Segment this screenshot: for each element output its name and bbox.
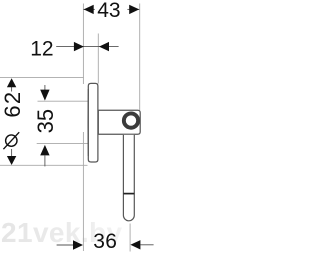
holder arm xyxy=(98,110,140,134)
dimension tail 35 bottom xyxy=(44,155,46,167)
roll pin end cap (donut) xyxy=(124,113,138,127)
svg-text:35: 35 xyxy=(33,109,58,133)
rod joint tick xyxy=(123,193,134,195)
svg-text:12: 12 xyxy=(30,38,53,61)
wall plate (side view) xyxy=(88,83,98,162)
svg-text:43: 43 xyxy=(97,0,120,22)
dimension stub 62 bottom xyxy=(11,149,13,156)
arrow 36 right (points left) xyxy=(130,240,140,249)
hanging rod xyxy=(123,135,134,221)
arrow 62 bottom (points down) xyxy=(7,156,16,165)
dimension stub 62 top xyxy=(11,87,13,92)
dimension line 36 left tail xyxy=(57,244,74,246)
extension line C (right of 43) xyxy=(139,4,141,111)
dimension stub 35 top xyxy=(44,85,46,90)
extension line A (left of 43/12) xyxy=(82,4,84,85)
arrow 62 top (points up) xyxy=(7,78,16,87)
arrow 35 top (points down) xyxy=(40,90,49,101)
diameter symbol xyxy=(3,132,19,149)
dimension line 36 right tail xyxy=(140,244,153,246)
extension line bottom of diameter 62 xyxy=(0,164,88,166)
extension line B (right of 12) xyxy=(97,34,99,84)
arrow 35 bottom (points up) xyxy=(40,145,49,156)
extension line D (below rod, right of 36) xyxy=(129,224,131,252)
extension line A lower (left of 36) xyxy=(82,132,84,251)
svg-text:62: 62 xyxy=(0,91,25,118)
plate left edge slight bulge xyxy=(87,89,89,156)
extension line top of 35 xyxy=(38,100,89,102)
arrow 43 right xyxy=(129,5,139,14)
arrow 36 left (points right) xyxy=(73,240,83,249)
dimension line 43 right stub xyxy=(127,8,139,10)
extension line bottom of 35 xyxy=(37,143,88,145)
arrow 12 right (points left) xyxy=(99,42,109,51)
dimension line 12 left xyxy=(56,46,118,48)
arrow 12 left (points right) xyxy=(74,42,84,51)
extension line top of diameter 62 xyxy=(0,77,84,79)
arrow 43 left xyxy=(84,5,94,14)
svg-text:36: 36 xyxy=(93,230,117,253)
dimension line 43 left stub xyxy=(83,8,94,10)
